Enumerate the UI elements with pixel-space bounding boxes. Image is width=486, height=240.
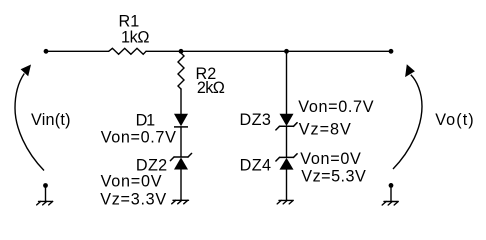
node: output top terminal [389, 49, 394, 54]
arrow: Vo polarity (curved, pointing up) [393, 64, 422, 169]
wire: DZ3 to DZ4 [286, 126, 288, 157]
wire: DZ4 to ground [286, 170, 288, 201]
diode D1 [174, 114, 188, 127]
wire: node B to output node [287, 50, 392, 52]
ground (below DZ4) [277, 200, 293, 204]
node: input bottom terminal [43, 183, 48, 188]
svg-text:D1: D1 [136, 111, 156, 129]
arrow: Vin polarity (curved, pointing up) [15, 65, 44, 171]
junction node A (R1 / R2 branch) [179, 49, 184, 54]
node: output bottom terminal [389, 183, 394, 188]
zener diode DZ3 [276, 114, 297, 130]
svg-text:Vz=3.3V: Vz=3.3V [100, 191, 166, 209]
svg-text:Vz=5.3V: Vz=5.3V [301, 167, 366, 185]
svg-text:Von=0V: Von=0V [101, 172, 162, 190]
svg-text:2kΩ: 2kΩ [197, 79, 225, 97]
svg-text:Von=0.7V: Von=0.7V [101, 129, 176, 147]
node: input top terminal [44, 49, 49, 54]
svg-text:1kΩ: 1kΩ [121, 29, 150, 47]
zener diode DZ4 [276, 154, 297, 170]
svg-text:DZ4: DZ4 [240, 157, 271, 175]
svg-text:DZ3: DZ3 [240, 111, 271, 129]
svg-text:Von=0.7V: Von=0.7V [298, 98, 373, 116]
ground (input return) [37, 186, 53, 205]
wire: node B to DZ3 [286, 51, 288, 113]
wire: top rail, input node to R1 [46, 50, 109, 52]
ground (output return) [382, 185, 398, 205]
wire: R2 to D1 [180, 89, 182, 114]
wire: D1 to DZ2 [180, 127, 182, 157]
svg-text:Von=0V: Von=0V [300, 150, 361, 168]
wire: node A to node B [181, 50, 287, 52]
junction node B (DZ3 branch) [284, 49, 289, 54]
wire: R1 to node A [146, 50, 181, 52]
svg-text:Vin(t): Vin(t) [31, 111, 71, 129]
resistor R2 [178, 53, 184, 89]
svg-text:Vo(t): Vo(t) [435, 111, 474, 129]
zener diode DZ2 [170, 153, 191, 169]
svg-text:Vz=8V: Vz=8V [299, 120, 351, 138]
resistor R1 [109, 48, 146, 54]
ground (below DZ2) [172, 200, 189, 204]
wire: DZ2 to ground [180, 170, 182, 201]
